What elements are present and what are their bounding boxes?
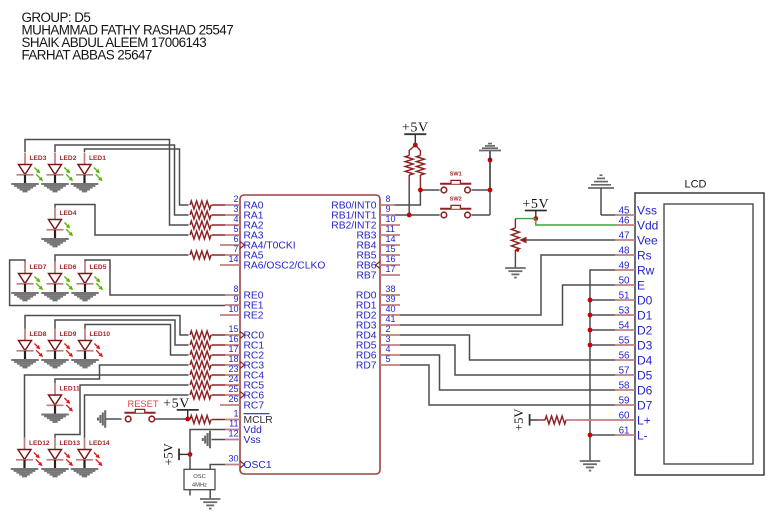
LED8 <box>11 329 43 368</box>
wire +5V to pot (green) <box>515 218 535 220</box>
power +5V at pot <box>522 197 549 219</box>
svg-text:Rw: Rw <box>637 264 655 278</box>
svg-text:OSC1: OSC1 <box>244 460 272 471</box>
svg-text:16: 16 <box>386 254 396 264</box>
svg-text:D2: D2 <box>637 324 653 338</box>
svg-text:RC7: RC7 <box>244 400 265 411</box>
resistor R7 <box>190 341 225 349</box>
label LED1 <box>89 155 106 162</box>
svg-text:SW2: SW2 <box>450 197 462 203</box>
svg-text:12: 12 <box>228 428 238 438</box>
wire LCD Rw to ground bus <box>590 270 615 461</box>
svg-text:FARHAT ABBAS 25647: FARHAT ABBAS 25647 <box>22 47 152 62</box>
crystal oscillator OSC 4MHz <box>184 469 215 489</box>
wire LED1 to R1 (RA0) <box>85 149 189 205</box>
ground above switches <box>479 144 501 160</box>
svg-text:E: E <box>637 279 645 293</box>
wire LED8 to R6 (RC0) <box>25 316 189 336</box>
wire bus to D0 <box>590 299 615 301</box>
resistor R5 <box>190 251 225 259</box>
svg-text:5: 5 <box>386 354 391 364</box>
LED2 <box>41 153 73 192</box>
wire LED2 to R2 (RA1) <box>55 145 189 215</box>
svg-text:LED4: LED4 <box>60 210 77 217</box>
svg-text:LED5: LED5 <box>90 264 107 271</box>
svg-text:3: 3 <box>386 334 391 344</box>
resistor R13 MCLR <box>190 416 225 424</box>
junction R15/SW1 <box>418 188 423 193</box>
svg-text:D5: D5 <box>637 369 653 383</box>
junction ground stem <box>488 158 493 163</box>
wire LED14 to R12 (RC6) <box>85 395 189 438</box>
pushbutton SW2 <box>440 205 471 217</box>
OSC box stub <box>189 490 191 496</box>
resistor R1 <box>190 201 225 209</box>
svg-text:50: 50 <box>619 276 630 287</box>
svg-text:+5V: +5V <box>512 409 526 431</box>
svg-text:2: 2 <box>233 194 238 204</box>
resistor R4 <box>190 231 225 239</box>
resistor R10 <box>190 371 225 379</box>
svg-text:47: 47 <box>619 231 630 242</box>
svg-text:OSC: OSC <box>193 474 206 480</box>
title block text <box>22 10 234 63</box>
svg-text:4: 4 <box>233 214 238 224</box>
wire OSC1 to OSC box <box>210 465 225 470</box>
wire RD3 to LCD E <box>400 285 615 325</box>
svg-text:57: 57 <box>619 366 630 377</box>
junction R14/RB1 <box>407 213 412 218</box>
svg-text:+5V: +5V <box>163 396 190 411</box>
svg-text:9: 9 <box>386 204 391 214</box>
label LED13 <box>60 440 81 447</box>
svg-text:RD7: RD7 <box>356 360 377 371</box>
resistor R6 <box>190 331 225 339</box>
svg-text:41: 41 <box>386 314 396 324</box>
wire LED5 to RE0 <box>85 260 225 295</box>
wire LED10 to R8 (RC2) <box>85 325 189 356</box>
svg-text:25: 25 <box>228 384 238 394</box>
svg-text:Vee: Vee <box>637 234 658 248</box>
LED7 <box>11 262 43 301</box>
svg-text:D6: D6 <box>637 384 653 398</box>
op-amp U1 PIC outline <box>240 195 380 474</box>
wire LED12 to R10 (RC4) <box>25 375 189 438</box>
svg-text:2: 2 <box>386 324 391 334</box>
svg-text:4MHz: 4MHz <box>192 483 207 489</box>
svg-text:16: 16 <box>228 334 238 344</box>
svg-text:56: 56 <box>619 351 630 362</box>
ground below OSC <box>200 499 221 509</box>
ground above LCD <box>588 175 614 215</box>
svg-text:38: 38 <box>386 284 396 294</box>
svg-text:11: 11 <box>229 418 238 428</box>
wire switch ground riser <box>489 160 491 215</box>
power +5V at MCLR <box>163 396 199 419</box>
U1 left pins and numbers <box>220 194 325 471</box>
svg-text:LED3: LED3 <box>30 155 47 162</box>
wire RD7 to LCD D7 <box>400 365 615 405</box>
power +5V at LCD backlight (rotated) <box>512 409 537 431</box>
svg-text:8: 8 <box>386 194 391 204</box>
junction +5V pot <box>533 216 538 221</box>
pushbutton RESET <box>124 409 155 421</box>
label LED2 <box>60 155 77 162</box>
wire Vss to ground <box>212 439 226 441</box>
junction MCLR node <box>185 417 190 422</box>
label LED12 <box>29 440 50 447</box>
svg-text:LCD: LCD <box>684 179 706 191</box>
svg-text:Vdd: Vdd <box>637 219 658 233</box>
wire RD2 to LCD Rs <box>400 255 615 315</box>
svg-text:LED6: LED6 <box>60 264 77 271</box>
svg-text:RESET: RESET <box>128 399 159 409</box>
ground arrow at Vss <box>203 431 210 449</box>
LED9 <box>41 329 73 368</box>
svg-text:17: 17 <box>228 344 238 354</box>
svg-text:61: 61 <box>619 426 630 437</box>
power +5V at switches <box>402 121 429 145</box>
svg-text:26: 26 <box>228 394 238 404</box>
wire pot to ground <box>514 258 516 268</box>
junction SW1 ground <box>488 188 493 193</box>
svg-text:11: 11 <box>386 224 395 234</box>
svg-text:15: 15 <box>228 324 238 334</box>
LCD outline <box>635 193 764 475</box>
wire LED9 to R7 (RC1) <box>55 320 189 345</box>
ground below LCD bus <box>580 461 601 471</box>
svg-text:LED10: LED10 <box>90 331 111 338</box>
LED10 <box>71 329 103 368</box>
svg-text:30: 30 <box>228 453 238 463</box>
svg-text:LED1: LED1 <box>89 155 106 162</box>
svg-text:LED11: LED11 <box>60 386 80 393</box>
wire bus to D3 <box>590 344 615 346</box>
wire RESET to MCLR node <box>155 418 188 420</box>
svg-text:54: 54 <box>619 321 630 332</box>
ground arrow at RESET <box>98 410 122 428</box>
resistor R8 <box>190 351 225 359</box>
svg-text:Rs: Rs <box>637 249 652 263</box>
wire LED4 to R4 (RA3) <box>55 205 189 236</box>
svg-text:D0: D0 <box>637 294 653 308</box>
wire +5V node to OSC <box>189 454 191 469</box>
wire LCD Vss to ground <box>601 214 615 216</box>
resistor R9 <box>190 361 225 369</box>
label LED5 <box>90 264 107 271</box>
wire LED7 to RE1 <box>10 260 225 306</box>
junction +5V pullups <box>413 143 418 148</box>
resistor R14 pullup <box>405 145 415 183</box>
resistor R16 backlight <box>537 416 615 424</box>
svg-text:7: 7 <box>233 244 238 254</box>
svg-text:39: 39 <box>386 294 396 304</box>
wire SW1 to ground net <box>471 189 490 191</box>
junction D3 <box>588 343 593 348</box>
wire +5V to LCD Vdd (green) <box>536 219 615 225</box>
wire RB0 to SW1 <box>395 190 440 205</box>
svg-text:RE2: RE2 <box>244 310 264 321</box>
svg-text:55: 55 <box>619 336 630 347</box>
svg-text:14: 14 <box>386 234 396 244</box>
potentiometer RV1 <box>511 219 526 258</box>
svg-text:D3: D3 <box>637 339 653 353</box>
label LED11 <box>60 386 80 393</box>
power +5V at OSC (rotated) <box>161 443 190 465</box>
label LED7 <box>30 264 47 271</box>
svg-text:+5V: +5V <box>402 121 429 136</box>
wire bus to D2 <box>590 329 615 331</box>
svg-text:5: 5 <box>233 224 238 234</box>
junction D0 <box>588 298 593 303</box>
svg-text:L+: L+ <box>637 414 651 428</box>
label LED10 <box>90 331 111 338</box>
svg-text:D1: D1 <box>637 309 653 323</box>
label LCD <box>684 179 706 191</box>
wire bus to D1 <box>590 314 615 316</box>
LED6 <box>41 262 73 301</box>
svg-text:LED7: LED7 <box>30 264 47 271</box>
label LED14 <box>89 440 110 447</box>
wire RD6 to LCD D6 <box>400 355 615 390</box>
svg-text:RB7: RB7 <box>356 270 376 281</box>
label LED3 <box>30 155 47 162</box>
wire RB1 to SW2 <box>395 214 440 216</box>
svg-text:46: 46 <box>619 216 630 227</box>
LED5 <box>71 262 103 301</box>
svg-text:D4: D4 <box>637 354 653 368</box>
resistor R12 <box>190 391 225 399</box>
svg-text:3: 3 <box>233 204 238 214</box>
label SW1 <box>450 172 462 178</box>
svg-text:4: 4 <box>386 344 391 354</box>
LED14 <box>71 438 103 477</box>
junction Vdd node <box>188 452 193 457</box>
svg-text:LED8: LED8 <box>30 331 47 338</box>
svg-text:LED14: LED14 <box>89 440 110 447</box>
svg-text:D7: D7 <box>637 399 653 413</box>
svg-text:18: 18 <box>228 354 238 364</box>
svg-text:RA6/OSC2/CLKO: RA6/OSC2/CLKO <box>244 260 326 271</box>
junction L- <box>588 433 593 438</box>
svg-text:10: 10 <box>386 214 396 224</box>
label SW2 <box>450 197 462 203</box>
wire RD5 to LCD D5 <box>400 345 615 375</box>
LED1 <box>71 153 103 192</box>
wire OSC box to ground <box>209 490 211 499</box>
svg-text:48: 48 <box>619 246 630 257</box>
svg-text:1: 1 <box>233 408 238 418</box>
wire Vdd to +5V node <box>190 430 225 455</box>
svg-text:60: 60 <box>619 411 630 422</box>
wire LED11 to R9 (RC3) <box>55 365 189 383</box>
LED4 <box>41 208 73 247</box>
svg-text:14: 14 <box>228 254 238 264</box>
resistor R3 <box>190 221 225 229</box>
svg-text:8: 8 <box>233 284 238 294</box>
label LED9 <box>60 331 77 338</box>
svg-text:Vss: Vss <box>244 435 261 446</box>
label LED6 <box>60 264 77 271</box>
svg-text:17: 17 <box>386 264 396 274</box>
junction D1 <box>588 313 593 318</box>
svg-text:6: 6 <box>233 234 238 244</box>
svg-text:23: 23 <box>228 364 238 374</box>
wire RD4 to LCD D4 <box>400 335 615 360</box>
U1 right pins and numbers <box>331 194 400 372</box>
svg-text:15: 15 <box>386 244 396 254</box>
svg-text:10: 10 <box>228 304 238 314</box>
LCD pins and numbers <box>615 203 658 442</box>
label LED8 <box>30 331 47 338</box>
LED13 <box>41 438 73 477</box>
svg-text:LED2: LED2 <box>60 155 77 162</box>
svg-text:9: 9 <box>233 294 238 304</box>
resistor R15 pullup <box>415 145 424 190</box>
svg-text:58: 58 <box>619 381 630 392</box>
svg-text:49: 49 <box>619 261 630 272</box>
svg-text:+5V: +5V <box>522 197 549 212</box>
svg-text:LED13: LED13 <box>60 440 81 447</box>
wire SW2 to ground net <box>471 214 490 216</box>
svg-text:SW1: SW1 <box>450 172 462 178</box>
svg-text:L-: L- <box>637 429 648 443</box>
svg-text:+5V: +5V <box>161 443 175 465</box>
svg-text:40: 40 <box>386 304 396 314</box>
LED11 <box>41 383 73 422</box>
pushbutton SW1 <box>440 180 471 192</box>
resistor R2 <box>190 211 225 219</box>
wire LED13 to R11 (RC5) <box>55 385 189 438</box>
label RESET <box>128 399 159 409</box>
svg-text:59: 59 <box>619 396 630 407</box>
LED3 <box>11 153 43 192</box>
svg-text:Vss: Vss <box>637 203 657 217</box>
wire bus to L- <box>590 434 615 436</box>
label LED4 <box>60 210 77 217</box>
svg-text:24: 24 <box>228 374 238 384</box>
wire LED3 to R3 (RA2) <box>25 140 189 226</box>
wire pot wiper to Vee <box>527 239 616 241</box>
svg-text:51: 51 <box>619 291 630 302</box>
wire LED6 to R5 (RA5) <box>55 255 189 262</box>
ground below pot <box>505 268 526 278</box>
resistor R11 <box>190 381 225 389</box>
svg-text:53: 53 <box>619 306 630 317</box>
junction D2 <box>588 328 593 333</box>
LED12 <box>11 438 43 477</box>
svg-text:LED9: LED9 <box>60 331 77 338</box>
svg-text:LED12: LED12 <box>29 440 50 447</box>
wire R14 to RB1 net <box>408 183 410 215</box>
